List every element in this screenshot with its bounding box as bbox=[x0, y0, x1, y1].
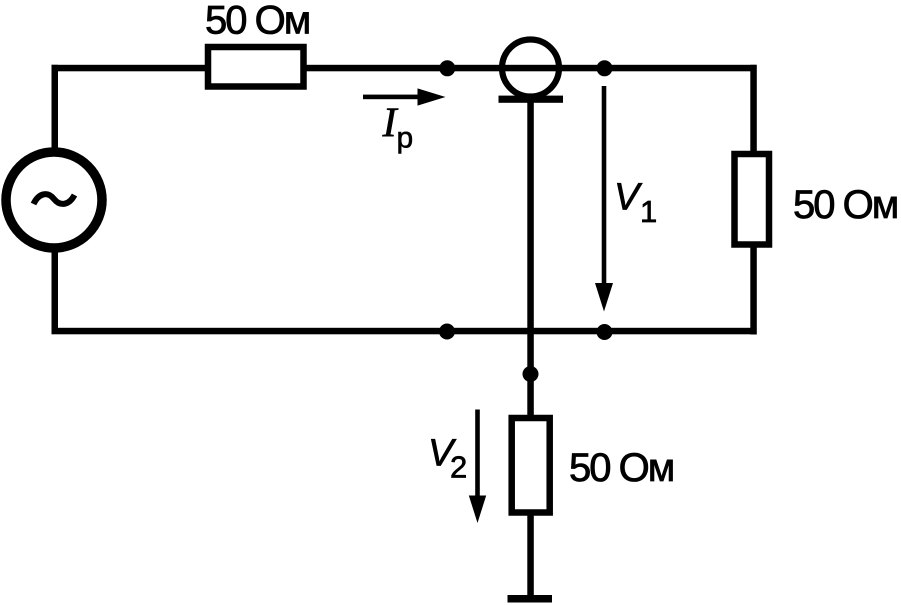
resistor R3 50 Ом (bottom) bbox=[512, 418, 550, 513]
node D junction dot (bottom right) bbox=[597, 324, 613, 340]
wire top horizontal left segment bbox=[52, 65, 206, 72]
arrow Ip current direction bbox=[363, 88, 446, 105]
resistor R2 50 Ом (right) bbox=[735, 154, 770, 245]
arrow V2 (voltage across bottom resistor) bbox=[469, 410, 486, 524]
probe U1 circle (current probe) bbox=[502, 40, 559, 97]
node E junction dot (center branch) bbox=[523, 366, 539, 382]
label 50 Ом for R1 bbox=[205, 0, 309, 43]
wire center vertical (probe to R3) bbox=[527, 100, 534, 415]
svg-text:2: 2 bbox=[450, 450, 467, 485]
svg-text:p: p bbox=[397, 122, 414, 155]
label 50 Ом for R3 bbox=[569, 446, 673, 490]
wire top horizontal right segment bbox=[306, 65, 757, 72]
label V2 bbox=[428, 433, 467, 485]
svg-text:50 Ом: 50 Ом bbox=[569, 446, 673, 490]
label V1 bbox=[614, 177, 657, 230]
label 50 Ом for R2 bbox=[793, 183, 897, 227]
wire bottom horizontal bbox=[52, 328, 757, 335]
arrow V1 (voltage across right resistor) bbox=[595, 86, 613, 312]
svg-text:V: V bbox=[614, 177, 643, 219]
svg-text:50 Ом: 50 Ом bbox=[793, 183, 897, 227]
node C junction dot (bottom left) bbox=[439, 324, 455, 340]
node A junction dot (top left of probe) bbox=[439, 60, 455, 76]
wire left vertical lower bbox=[52, 250, 59, 334]
wire right vertical upper bbox=[750, 65, 757, 154]
wire bottom vertical to ground bbox=[527, 512, 534, 598]
AC source G1 sine tilde bbox=[34, 194, 75, 204]
svg-text:1: 1 bbox=[640, 194, 657, 229]
label Ip bbox=[382, 100, 414, 155]
wire right vertical lower bbox=[750, 244, 757, 335]
resistor R1 50 Ом (top) bbox=[208, 47, 304, 87]
probe U1 base bar bbox=[499, 96, 564, 103]
node B junction dot (top right of probe) bbox=[597, 60, 613, 76]
svg-text:50 Ом: 50 Ом bbox=[205, 0, 309, 43]
wire top-left vertical bbox=[52, 65, 59, 149]
ground bar bbox=[508, 595, 553, 603]
AC source G1 circle bbox=[6, 152, 102, 248]
